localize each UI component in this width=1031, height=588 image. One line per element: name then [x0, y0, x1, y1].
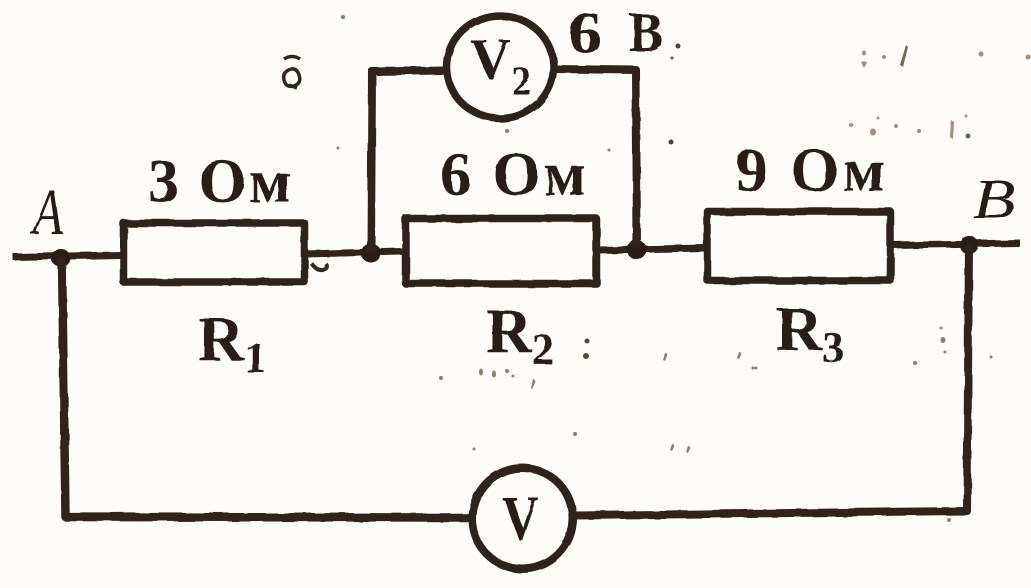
svg-text:В: В: [629, 2, 663, 64]
voltmeter V: [472, 468, 573, 569]
wire: bottom loop right: [575, 245, 969, 516]
node junction between R1 and R2: [361, 244, 381, 263]
wire: left stub from edge through node A to R1: [13, 255, 122, 257]
wire: V2 branch left vertical and top: [371, 71, 447, 253]
speckles top right: [849, 45, 1031, 139]
resistor R1: [124, 223, 305, 282]
svg-text:R1: R1: [198, 303, 266, 382]
resistor R2: [406, 219, 597, 284]
wire: R1 to node 2: [305, 252, 402, 255]
resistor R3: [708, 212, 891, 281]
svg-text:6: 6: [568, 0, 602, 66]
stray hook mark right of R1: [311, 263, 327, 270]
svg-text:9 Ом: 9 Ом: [736, 137, 889, 205]
node junction between R2 and R3: [627, 241, 647, 260]
wire: R3 to node B and right edge: [891, 243, 1020, 245]
wire: bottom loop left: [62, 258, 470, 518]
svg-text:V2: V2: [470, 28, 531, 103]
svg-text:R3: R3: [776, 293, 844, 372]
voltmeter V2: [447, 16, 554, 119]
node B junction dot: [960, 236, 979, 254]
svg-text:B: B: [973, 168, 1015, 231]
speckles middle: [337, 15, 755, 453]
wire: R2 to node 3: [597, 248, 707, 250]
svg-text:A: A: [30, 176, 63, 249]
svg-text:3 Ом: 3 Ом: [148, 148, 293, 216]
svg-text:6 Ом: 6 Ом: [440, 141, 589, 209]
speckles right side: [755, 327, 993, 523]
svg-text:R2: R2: [486, 295, 554, 374]
svg-text:V: V: [502, 485, 539, 553]
node A junction dot: [52, 249, 71, 267]
wire: V2 branch right vertical: [553, 69, 637, 248]
stray mark (handwritten o with tilde): [284, 57, 300, 89]
